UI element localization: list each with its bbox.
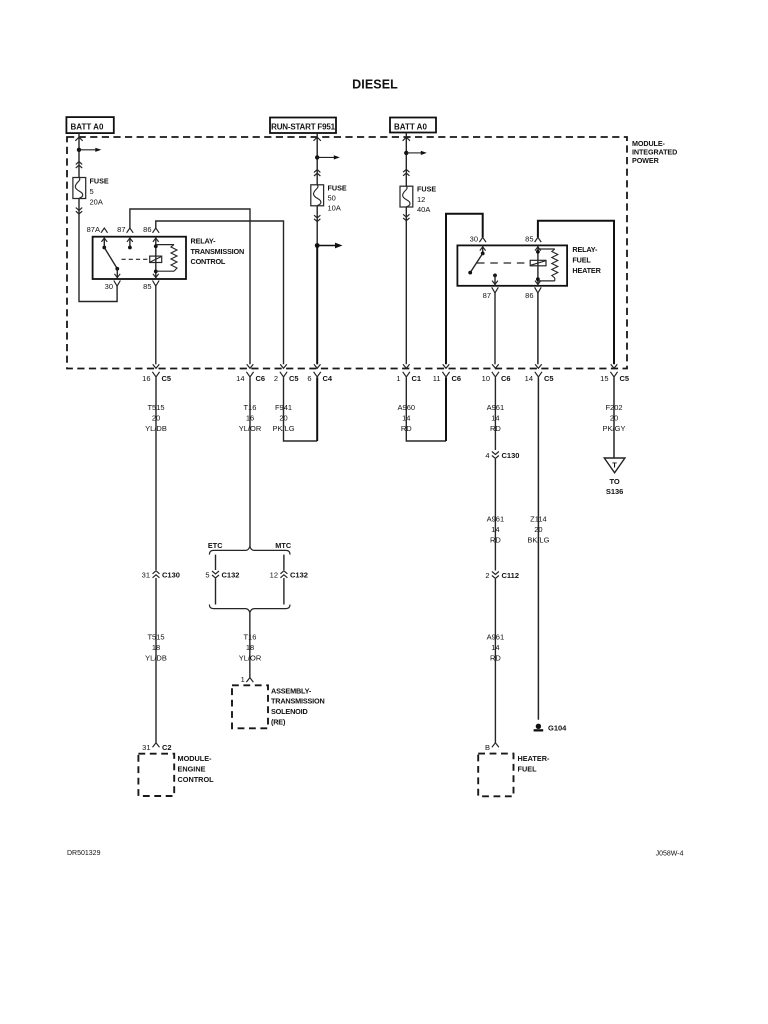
svg-text:G104: G104	[548, 724, 567, 733]
svg-text:TO: TO	[609, 477, 619, 486]
svg-text:C2: C2	[162, 743, 172, 752]
wire relay2 30 to C6-11 (thick)	[446, 214, 483, 365]
svg-text:12: 12	[270, 571, 278, 580]
wire relay2 85 to C5-15 (thick)	[538, 221, 614, 364]
connector 16 C5	[142, 364, 171, 383]
fuse 12 40A	[400, 185, 436, 214]
wire label F202 20 PK/GY	[603, 403, 626, 433]
svg-text:YL/DB: YL/DB	[145, 654, 167, 663]
svg-text:T515: T515	[147, 633, 164, 642]
svg-text:50: 50	[328, 193, 336, 202]
svg-text:5: 5	[205, 571, 209, 580]
heater-fuel dashed box	[478, 754, 513, 797]
splice 2 C112	[485, 571, 519, 580]
relay transmission control box	[93, 237, 186, 279]
svg-text:86: 86	[143, 225, 151, 234]
relay2 pin 30	[470, 234, 486, 243]
svg-text:BATT A0: BATT A0	[394, 123, 427, 132]
svg-text:87: 87	[117, 225, 125, 234]
svg-text:C4: C4	[323, 374, 333, 383]
svg-text:MTC: MTC	[275, 541, 292, 550]
relay2 coil branch	[530, 245, 558, 285]
relay1 pin 30	[105, 281, 121, 292]
node on left feed	[77, 148, 102, 152]
svg-text:C1: C1	[412, 374, 422, 383]
svg-text:C5: C5	[162, 374, 172, 383]
relay1 mechanical link (dashed)	[122, 258, 150, 260]
feed box BATT A0 (right)	[390, 118, 436, 133]
wire label A961 14 RD (middle)	[487, 515, 505, 545]
relay2 pin 87	[483, 287, 499, 300]
relay-transmission control label	[191, 237, 245, 267]
connector 1 C1	[396, 364, 421, 383]
relay1 internal pin arrowheads	[101, 238, 158, 278]
wire F202	[613, 377, 615, 458]
svg-text:2: 2	[485, 571, 489, 580]
wire A960 loop	[406, 377, 446, 441]
off-page chevrons below fuse 5	[76, 208, 82, 214]
svg-text:6: 6	[307, 374, 311, 383]
relay fuel heater box	[457, 245, 567, 285]
splice 5 C132	[205, 571, 239, 580]
module-integrated power dashed box	[67, 137, 627, 369]
splice 4 C130	[485, 451, 519, 460]
connector 14 C6	[236, 364, 265, 383]
svg-text:87: 87	[483, 291, 491, 300]
relay2 mechanical link (dashed)	[477, 262, 530, 264]
relay1 pin 85	[143, 281, 159, 292]
relay2 pin 86	[525, 287, 541, 300]
MTC branch wire lower	[283, 578, 285, 605]
wire batt A0 left feed	[79, 133, 117, 301]
svg-text:86: 86	[525, 291, 533, 300]
svg-text:C112: C112	[502, 571, 520, 580]
relay2 pin 85	[525, 234, 541, 243]
svg-text:CONTROL: CONTROL	[178, 775, 215, 784]
svg-text:C5: C5	[544, 374, 554, 383]
svg-text:TRANSMISSION: TRANSMISSION	[191, 247, 245, 256]
svg-text:20A: 20A	[90, 197, 103, 206]
pin B into heater-fuel	[485, 743, 499, 752]
svg-text:B: B	[485, 743, 490, 752]
top split brace	[209, 547, 290, 555]
svg-text:S136: S136	[606, 487, 624, 496]
relay1 pin 87	[117, 225, 133, 234]
svg-text:C6: C6	[256, 374, 266, 383]
fuse 50 10A	[311, 183, 347, 212]
connector 11 C6	[433, 364, 461, 383]
svg-text:20: 20	[534, 525, 542, 534]
svg-text:FUEL: FUEL	[518, 764, 538, 773]
svg-text:16: 16	[142, 374, 150, 383]
svg-text:30: 30	[105, 282, 113, 291]
wire T16 upper	[249, 377, 251, 547]
assembly-transmission solenoid dashed box	[232, 685, 268, 728]
svg-text:FUSE: FUSE	[90, 177, 109, 186]
wire T16 lower	[249, 612, 251, 677]
svg-text:85: 85	[143, 282, 151, 291]
module-engine control label	[178, 754, 215, 784]
module-integrated power label	[632, 139, 677, 165]
svg-text:18: 18	[246, 643, 254, 652]
svg-text:HEATER: HEATER	[572, 266, 601, 275]
wire A961 upper	[494, 377, 496, 450]
pin 31 C2 into engine module	[142, 743, 171, 752]
svg-text:C130: C130	[502, 451, 520, 460]
svg-text:(RE): (RE)	[271, 718, 286, 727]
svg-text:ETC: ETC	[208, 541, 223, 550]
heater-fuel label	[518, 754, 550, 774]
bottom merge brace	[209, 605, 290, 613]
svg-text:YL/OR: YL/OR	[239, 654, 262, 663]
svg-text:T16: T16	[244, 633, 257, 642]
ground G104	[534, 724, 568, 733]
svg-text:TRANSMISSION: TRANSMISSION	[271, 697, 325, 706]
MTC branch wire	[283, 555, 285, 570]
svg-text:RD: RD	[490, 654, 501, 663]
wire F941 loop	[284, 377, 318, 441]
wire A961 middle	[494, 459, 496, 571]
module-engine control dashed box	[138, 754, 174, 796]
wire label T515 20 YL/DB	[145, 403, 167, 433]
relay1 coil branch	[150, 237, 177, 279]
connector 6 C4	[307, 364, 333, 383]
svg-text:10A: 10A	[328, 204, 341, 213]
svg-text:C5: C5	[620, 374, 630, 383]
wire T515 upper	[155, 377, 157, 570]
svg-text:C132: C132	[290, 571, 308, 580]
svg-text:14: 14	[491, 643, 499, 652]
relay-fuel heater label	[572, 245, 601, 275]
svg-text:RELAY-: RELAY-	[191, 237, 217, 246]
feed box RUN-START F951	[270, 118, 336, 134]
wire batt A0 right feed	[405, 133, 407, 365]
svg-text:31: 31	[142, 571, 150, 580]
svg-text:BK/LG: BK/LG	[527, 536, 549, 545]
assembly-transmission solenoid label	[271, 686, 325, 726]
svg-text:15: 15	[600, 374, 608, 383]
svg-text:A961: A961	[487, 633, 505, 642]
svg-text:14: 14	[525, 374, 533, 383]
svg-text:A961: A961	[487, 515, 505, 524]
wire label A961 14 RD (upper)	[487, 403, 505, 433]
svg-text:FUSE: FUSE	[328, 183, 347, 192]
wire label F941 20 PK/LG	[272, 403, 294, 433]
wire run-start feed	[316, 133, 318, 364]
svg-text:10: 10	[482, 374, 490, 383]
off-page chevrons above fuse 50	[314, 170, 320, 176]
connector 14 C5	[525, 364, 554, 383]
svg-text:14: 14	[491, 525, 499, 534]
relay2 internals: 30 contact and blade	[468, 245, 484, 274]
wire label T515 18 YL/DB	[145, 633, 167, 663]
connector 15 C5	[600, 364, 629, 383]
svg-text:ENGINE: ENGINE	[178, 765, 206, 774]
node on right feed	[404, 151, 427, 155]
svg-text:5: 5	[90, 187, 94, 196]
svg-text:C132: C132	[222, 571, 240, 580]
wire C6-11 drop (thick)	[445, 377, 447, 441]
ETC branch wire	[215, 555, 217, 570]
svg-text:18: 18	[152, 643, 160, 652]
wire relay1 87 to C6-14	[130, 209, 250, 364]
svg-text:ASSEMBLY-: ASSEMBLY-	[271, 686, 312, 695]
svg-text:Z114: Z114	[530, 515, 547, 524]
relay1 coil diagonal	[150, 257, 161, 262]
svg-text:87A: 87A	[87, 225, 100, 234]
svg-text:T: T	[612, 461, 617, 470]
svg-text:4: 4	[485, 451, 489, 460]
svg-text:40A: 40A	[417, 205, 430, 214]
svg-text:MODULE-: MODULE-	[178, 754, 213, 763]
wire relay1 85 to C5-16	[155, 286, 157, 364]
svg-text:C5: C5	[289, 374, 299, 383]
relay1 87 contact	[128, 237, 132, 250]
relay1 pin 87A	[87, 225, 108, 234]
entry arrow right feed	[403, 137, 410, 141]
svg-text:12: 12	[417, 195, 425, 204]
relay2 87 contact	[493, 274, 497, 286]
svg-text:30: 30	[470, 234, 478, 243]
feed box BATT A0 (left)	[66, 117, 113, 133]
svg-text:DIESEL: DIESEL	[352, 78, 398, 92]
off-page chevrons below fuse 50	[314, 215, 320, 221]
svg-text:CONTROL: CONTROL	[191, 257, 226, 266]
relay1 internals: 87A contact	[102, 237, 106, 250]
svg-text:C130: C130	[162, 571, 180, 580]
wire relay2 87 to C6-10	[494, 293, 496, 364]
wire T515 lower	[155, 578, 157, 743]
relay2 coil diagonal	[531, 261, 546, 265]
svg-text:J058W-4: J058W-4	[656, 851, 684, 858]
wire label T16 18 YL/OR	[239, 633, 262, 663]
off-page chevrons above fuse 12	[403, 169, 409, 175]
wire C4-6 drop (thick)	[316, 377, 318, 441]
relay2 internal pin arrowheads	[480, 247, 541, 285]
wire label A960 14 RD	[398, 403, 416, 433]
wire relay1 86 to C5-2	[156, 221, 284, 364]
ETC branch wire lower	[215, 579, 217, 605]
off-page chevrons above fuse 5	[76, 162, 82, 168]
svg-text:FUEL: FUEL	[572, 256, 591, 265]
splice 31 C130	[142, 571, 180, 580]
node 1 on run-start	[315, 155, 340, 159]
relay1 pin 86	[143, 225, 159, 234]
svg-text:RD: RD	[490, 536, 501, 545]
pin 1 into solenoid assembly	[241, 675, 254, 684]
svg-text:SOLENOID: SOLENOID	[271, 707, 308, 716]
svg-text:RUN-START F951: RUN-START F951	[271, 123, 335, 132]
svg-text:2: 2	[274, 374, 278, 383]
svg-text:85: 85	[525, 234, 533, 243]
splice 12 C132	[270, 571, 308, 580]
entry arrow run-start	[314, 137, 321, 141]
wire A961 lower	[494, 579, 496, 743]
wire run-start lower (thick)	[316, 246, 318, 365]
svg-text:C6: C6	[501, 374, 511, 383]
wire label A961 14 RD (lower)	[487, 633, 505, 663]
node 2 on run-start	[315, 243, 343, 249]
svg-text:14: 14	[236, 374, 244, 383]
svg-text:BATT A0: BATT A0	[71, 123, 104, 132]
svg-text:11: 11	[433, 374, 441, 383]
svg-text:FUSE: FUSE	[417, 185, 436, 194]
wire relay2 86 to C5-14	[537, 293, 539, 364]
fuse 5 20A	[73, 177, 109, 207]
connector 10 C6	[482, 364, 511, 383]
off-page chevrons below fuse 12	[403, 214, 409, 220]
svg-text:31: 31	[142, 743, 150, 752]
entry arrow left feed	[75, 137, 82, 141]
off-page triangle to S136	[604, 458, 625, 496]
wire Z114	[537, 377, 539, 719]
svg-text:1: 1	[396, 374, 400, 383]
svg-text:C6: C6	[452, 374, 462, 383]
svg-text:POWER: POWER	[632, 156, 660, 165]
wire label Z114 20 BK/LG	[527, 515, 549, 545]
connector 2 C5	[274, 364, 299, 383]
svg-text:HEATER-: HEATER-	[518, 754, 550, 763]
svg-text:RELAY-: RELAY-	[572, 245, 598, 254]
wire label T16 16 YL/OR	[239, 403, 262, 433]
relay1 switch blade	[104, 248, 119, 280]
svg-text:1: 1	[241, 675, 245, 684]
svg-text:DR501329: DR501329	[67, 850, 101, 857]
